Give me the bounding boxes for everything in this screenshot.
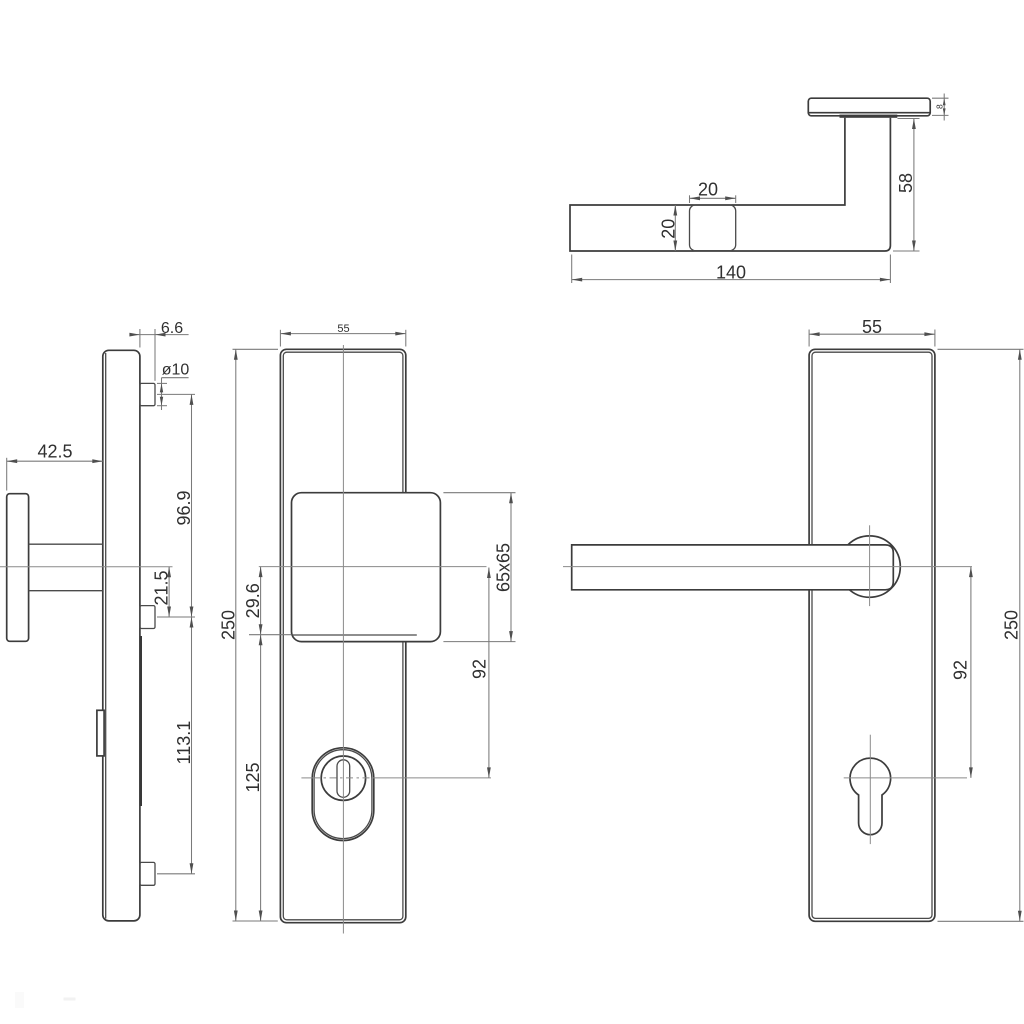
- svg-text:20: 20: [659, 219, 679, 239]
- svg-text:8: 8: [935, 104, 945, 109]
- svg-text:250: 250: [218, 610, 238, 640]
- svg-text:113.1: 113.1: [174, 721, 194, 765]
- svg-text:250: 250: [1001, 610, 1021, 640]
- svg-text:140: 140: [716, 263, 746, 283]
- svg-text:92: 92: [470, 659, 490, 679]
- svg-text:42.5: 42.5: [37, 442, 72, 462]
- svg-text:55: 55: [337, 323, 349, 335]
- svg-text:6.6: 6.6: [161, 320, 183, 337]
- svg-text:21.5: 21.5: [152, 570, 172, 605]
- svg-text:20: 20: [698, 180, 718, 200]
- svg-text:29.6: 29.6: [243, 583, 263, 618]
- svg-text:92: 92: [951, 660, 971, 680]
- svg-text:65x65: 65x65: [494, 543, 514, 592]
- svg-text:125: 125: [243, 762, 263, 792]
- svg-text:58: 58: [896, 173, 916, 193]
- svg-text:ø10: ø10: [162, 361, 190, 378]
- svg-text:96.9: 96.9: [174, 490, 194, 525]
- svg-text:55: 55: [862, 317, 882, 337]
